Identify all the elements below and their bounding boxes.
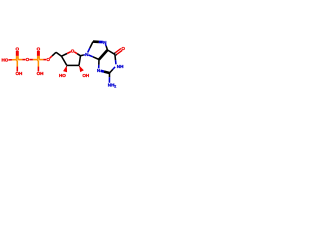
svg-text:N: N	[97, 68, 101, 73]
svg-text:O: O	[37, 47, 41, 52]
bond C1'-N9	[81, 55, 85, 56]
wedge C3'-OH	[63, 65, 67, 72]
wedge C2'-OH	[79, 65, 84, 72]
svg-text:O: O	[5, 58, 9, 63]
bond O4'-C1'	[74, 52, 80, 56]
bond C4-N3	[98, 60, 100, 69]
bond P1-O bridge	[18, 59, 25, 61]
svg-text:O: O	[62, 73, 66, 78]
double bond C8=N7	[93, 41, 103, 43]
double bond P2=O	[38, 51, 39, 59]
bond C5'-C4'	[56, 52, 62, 56]
svg-text:N: N	[85, 52, 89, 57]
bond HO-P1	[9, 59, 17, 61]
svg-text:N: N	[103, 40, 107, 45]
svg-text:O: O	[16, 47, 20, 52]
bond C6-C5	[108, 50, 115, 54]
bond C2-NH2	[108, 73, 110, 83]
svg-text:H: H	[120, 64, 124, 69]
bond C2'-C1'	[79, 56, 81, 66]
svg-text:O: O	[26, 57, 30, 62]
svg-text:H: H	[86, 73, 90, 78]
bond C4-N9	[89, 55, 99, 60]
bond C2-N1	[110, 67, 116, 73]
bond C4'-O4' ring	[62, 52, 71, 57]
double bond C4=C5	[99, 50, 108, 60]
bond P1-OH	[16, 61, 18, 72]
GDP molecule structure diagram	[0, 0, 130, 130]
bond C3'-C2'	[67, 64, 79, 66]
bond P2-OH	[37, 61, 39, 72]
svg-text:O: O	[121, 46, 125, 51]
bond P2-O5prime	[39, 59, 46, 61]
svg-text:H: H	[19, 71, 23, 76]
double bond P1=O	[17, 51, 18, 59]
double bond C6=O6	[114, 49, 122, 56]
double bond N3=C2	[100, 70, 109, 73]
bond O5'-C5'	[50, 52, 56, 58]
bond N9-C8	[88, 42, 93, 53]
svg-text:2: 2	[114, 85, 116, 89]
bond C4'-C3'	[62, 56, 67, 65]
svg-text:H: H	[40, 71, 44, 76]
bond O-P2	[29, 59, 37, 61]
bond N1-C6	[115, 54, 116, 64]
bond N7-C5	[105, 44, 107, 50]
